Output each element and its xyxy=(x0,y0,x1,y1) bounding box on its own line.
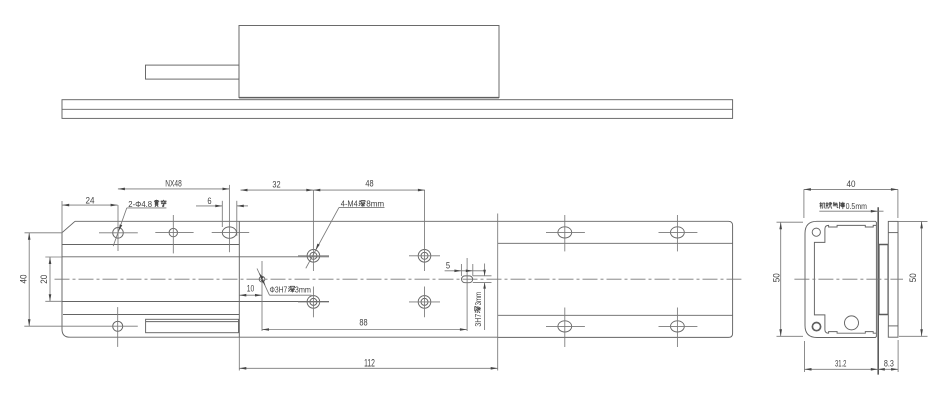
plan view: table outline xyxy=(62,221,498,337)
dim 88 xyxy=(262,318,467,331)
svg-text:88: 88 xyxy=(359,318,367,328)
side view: slider block xyxy=(239,26,499,98)
rail hole 1 xyxy=(546,215,585,251)
hole H2 small top-middle xyxy=(155,215,193,253)
side view: base rail xyxy=(62,100,733,119)
end view dim 8.3 xyxy=(878,340,898,372)
plan view: centerline xyxy=(55,278,742,280)
end view: centerline xyxy=(794,278,903,280)
end view dim 50 left xyxy=(771,222,803,336)
svg-text:40: 40 xyxy=(18,275,28,284)
svg-text:112: 112 xyxy=(364,358,375,370)
leader 4-M4 depth 8mm xyxy=(306,200,385,269)
end view: inner channel profile xyxy=(814,225,876,333)
svg-text:0.5mm: 0.5mm xyxy=(846,202,868,211)
dim NX48 xyxy=(118,179,230,191)
svg-text:50: 50 xyxy=(771,273,781,282)
svg-text:NX48: NX48 xyxy=(165,179,182,189)
dim 3H7 oval height xyxy=(473,264,492,331)
dim 48 xyxy=(313,179,425,192)
end view: body outline xyxy=(805,221,876,337)
end view: gap line xyxy=(877,207,879,374)
plan view: rail right section outline xyxy=(498,221,733,337)
svg-text:3H7: 3H7 xyxy=(474,313,483,326)
end view: screw hole top xyxy=(812,228,820,236)
dim 6 xyxy=(196,196,248,236)
M4 hole C bottom-left xyxy=(298,287,329,318)
svg-text:31.2: 31.2 xyxy=(835,359,847,369)
svg-text:20: 20 xyxy=(39,275,49,284)
end view: rail middle piece xyxy=(879,245,889,315)
svg-text:8.3: 8.3 xyxy=(884,359,894,369)
svg-text:24: 24 xyxy=(86,196,95,206)
plan view: table inner lines xyxy=(62,245,329,315)
end view: screw hole bottom xyxy=(812,323,820,331)
dim 20 left xyxy=(39,257,62,301)
svg-text:48: 48 xyxy=(365,179,373,189)
end view: big bore circle xyxy=(845,316,859,330)
end view dim 31.2 xyxy=(805,341,878,372)
svg-text:3mm: 3mm xyxy=(474,292,483,306)
dim 10 xyxy=(239,284,262,297)
svg-text:Φ3H7: Φ3H7 xyxy=(270,285,288,294)
rail hole 2 xyxy=(659,215,698,251)
end view dim 50 right xyxy=(898,221,928,336)
M4 hole A top-left xyxy=(298,190,329,271)
svg-text:6: 6 xyxy=(207,196,211,206)
hole H1 phi4.8 top-left xyxy=(99,205,138,251)
leader phi3H7 depth 3mm xyxy=(257,269,312,296)
leader 2-phi4.8 through xyxy=(113,200,166,246)
end view dim 40 xyxy=(804,179,898,218)
slot 3H7 oval xyxy=(462,258,473,331)
dim 40 left xyxy=(18,233,62,326)
leader mechanical gap 0.5mm xyxy=(819,202,883,213)
dim 32 xyxy=(241,180,314,192)
plan view: slot pocket xyxy=(146,319,239,332)
dim 24 xyxy=(62,196,118,233)
hole H3 rail slot top xyxy=(212,185,250,252)
hole H4 phi4.8 bottom-left xyxy=(24,307,138,347)
rail hole 4 xyxy=(659,308,698,348)
svg-text:32: 32 xyxy=(272,180,280,190)
dim 5 xyxy=(445,260,485,276)
side view: push bar xyxy=(146,65,240,79)
svg-text:40: 40 xyxy=(847,179,856,189)
svg-text:10: 10 xyxy=(247,284,255,294)
end view: end plate xyxy=(888,221,898,337)
hole phi3H7 center pin xyxy=(259,261,265,331)
svg-text:5: 5 xyxy=(446,260,450,270)
rail hole 3 xyxy=(546,308,585,348)
svg-text:50: 50 xyxy=(908,273,918,282)
dim 112 xyxy=(239,214,497,371)
M4 hole D bottom-right xyxy=(409,287,440,318)
svg-text:3mm: 3mm xyxy=(295,285,311,294)
M4 hole B top-right xyxy=(409,190,440,271)
